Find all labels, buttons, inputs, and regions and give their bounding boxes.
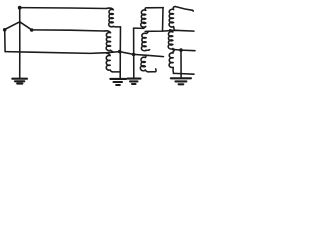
ground (first stage) bbox=[110, 79, 126, 85]
wire (group1 right vertical to ground) bbox=[119, 27, 121, 78]
wire (diagonal to left node) bbox=[5, 22, 20, 30]
wire (tap line of group2) bbox=[134, 27, 144, 29]
wire (coil C bottom to vertical) bbox=[113, 71, 121, 73]
wire (coil F bottom link with upward kick) bbox=[148, 69, 156, 72]
wire (corner vertical x163) bbox=[162, 8, 165, 32]
wire (vertical from node A down to ground) bbox=[19, 8, 21, 79]
node E (bus junction on tap) bbox=[132, 53, 136, 57]
wire (diagonal to right node) bbox=[20, 22, 32, 30]
wire (line1 top output) bbox=[176, 7, 194, 12]
ground (antenna) bbox=[12, 79, 27, 84]
inductor L1 (coil A) bbox=[106, 8, 116, 27]
wire (ground/common bus) bbox=[5, 52, 163, 57]
wire (top link coil D to group3 corner) bbox=[147, 7, 163, 9]
node D (bus junction) bbox=[118, 50, 122, 54]
inductor L2 (coil B) bbox=[104, 31, 113, 52]
inductor L8 (coil H) bbox=[168, 30, 174, 50]
wire (coil A bottom to right vertical) bbox=[116, 26, 121, 28]
inductor L5 (coil E) bbox=[141, 31, 149, 50]
node A (antenna junction) bbox=[18, 6, 22, 10]
wire (vertical to output ground) bbox=[180, 50, 182, 77]
wire (line3 output) bbox=[173, 49, 196, 50]
inductor L9 (coil I) bbox=[169, 51, 174, 74]
inductor L6 (coil F) bbox=[140, 55, 147, 71]
ground (output stage) bbox=[171, 78, 191, 84]
wire (left vertical down to bus) bbox=[4, 30, 6, 52]
node C bbox=[30, 28, 34, 32]
inductor L4 (coil D) bbox=[141, 8, 147, 28]
wire (second lead from node C to coil L2) bbox=[32, 30, 105, 31]
wire (line2 to output) bbox=[145, 30, 194, 31]
node B bbox=[3, 28, 7, 32]
ground (second stage tap) bbox=[128, 79, 141, 84]
node F bbox=[179, 48, 183, 52]
wire (line4 bottom output) bbox=[174, 72, 195, 75]
wire (tap vertical to ground) bbox=[133, 28, 135, 78]
wire (top lead from node A to coil L1) bbox=[20, 7, 107, 10]
inductor L7 (coil G) bbox=[169, 7, 176, 31]
inductor L3 (coil C) bbox=[106, 53, 112, 72]
